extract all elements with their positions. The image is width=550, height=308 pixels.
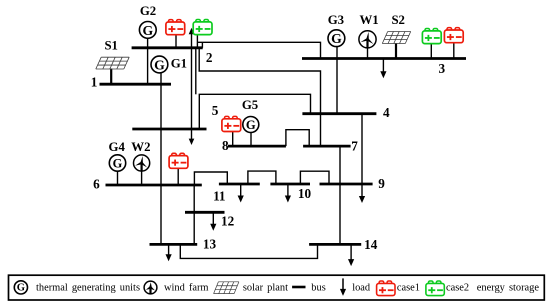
svg-text:3: 3 (439, 61, 446, 76)
svg-text:7: 7 (351, 138, 358, 153)
svg-text:G5: G5 (242, 98, 258, 112)
svg-text:S1: S1 (104, 38, 118, 52)
svg-text:4: 4 (383, 105, 390, 120)
svg-text:W1: W1 (359, 13, 378, 27)
svg-text:solar plant: solar plant (243, 283, 288, 294)
svg-text:8: 8 (222, 138, 229, 153)
svg-text:G: G (246, 118, 256, 132)
svg-text:1: 1 (91, 74, 98, 89)
svg-text:G: G (113, 157, 123, 171)
svg-text:case2: case2 (446, 283, 469, 294)
svg-text:G: G (142, 23, 153, 38)
svg-text:thermal generating units: thermal generating units (36, 283, 140, 294)
svg-text:G2: G2 (140, 4, 156, 18)
svg-text:S2: S2 (391, 13, 405, 27)
svg-text:13: 13 (203, 237, 217, 252)
svg-text:5: 5 (212, 103, 219, 118)
svg-text:W2: W2 (131, 140, 150, 154)
svg-text:energy storage: energy storage (477, 283, 540, 294)
svg-text:G3: G3 (328, 13, 344, 27)
svg-text:6: 6 (93, 177, 100, 192)
svg-text:wind farm: wind farm (164, 283, 209, 294)
svg-text:G4: G4 (109, 140, 126, 154)
svg-text:G: G (154, 58, 165, 73)
svg-text:bus: bus (311, 283, 325, 294)
svg-text:9: 9 (378, 176, 385, 191)
svg-text:G1: G1 (171, 57, 187, 71)
svg-text:G: G (17, 282, 25, 293)
svg-text:case1: case1 (397, 283, 420, 294)
svg-text:load: load (352, 283, 371, 294)
svg-text:10: 10 (298, 186, 312, 201)
svg-text:11: 11 (213, 189, 225, 204)
svg-text:14: 14 (364, 237, 378, 252)
svg-text:12: 12 (221, 214, 235, 229)
svg-text:G: G (331, 31, 342, 46)
svg-text:2: 2 (206, 50, 213, 65)
